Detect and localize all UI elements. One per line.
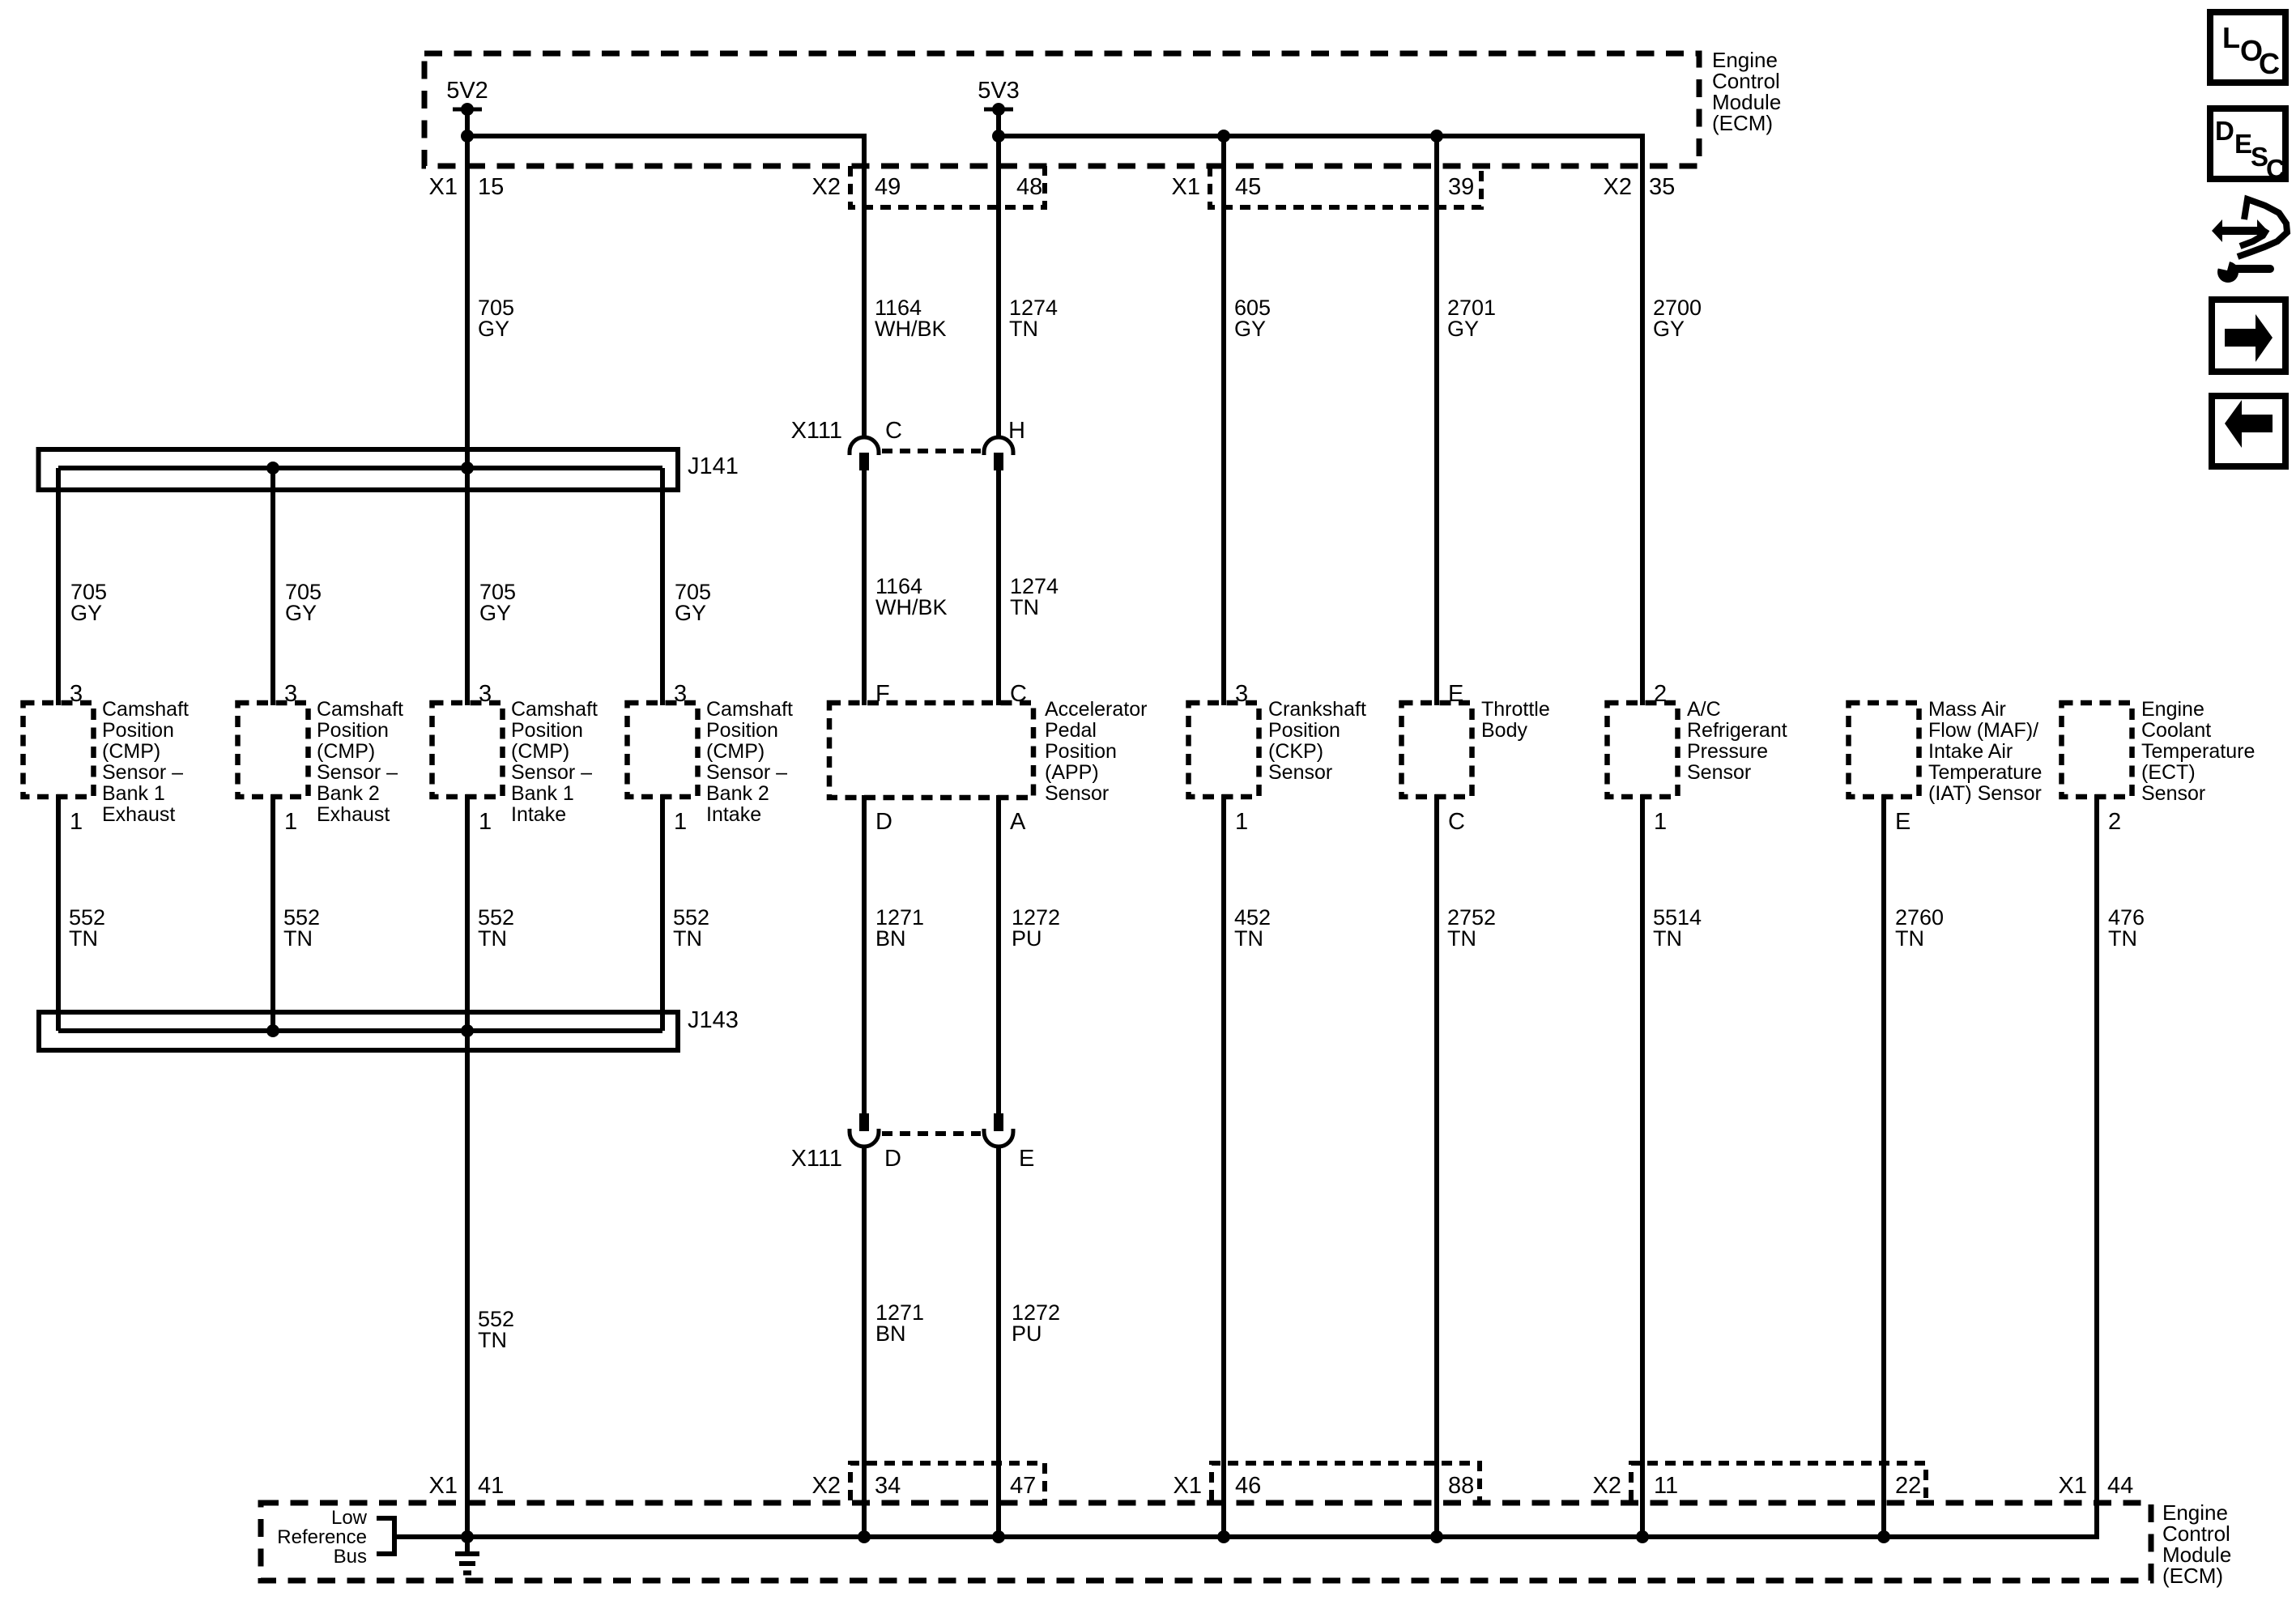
svg-text:1: 1: [674, 809, 687, 835]
svg-text:Temperature: Temperature: [2141, 740, 2255, 763]
svg-text:45: 45: [1235, 174, 1261, 200]
icon vehicle double arrow: [2212, 219, 2268, 242]
svg-text:11: 11: [1654, 1473, 1678, 1499]
icon wrench: [2217, 262, 2238, 283]
svg-text:TN: TN: [1447, 926, 1476, 951]
wire 1274 TN pin 48 down to X111 C: [996, 136, 1001, 436]
svg-text:Crankshaft: Crankshaft: [1268, 698, 1366, 721]
svg-text:Throttle: Throttle: [1481, 698, 1550, 721]
svg-text:Mass Air: Mass Air: [1928, 698, 2006, 721]
connector X2 sub-box pins 11-22: [1631, 1463, 1926, 1500]
wire 705 GY J141 to CMP B1 intake: [465, 468, 470, 705]
throttle body (box): [1402, 703, 1472, 797]
wire 476 TN ECT to ECM 44: [2094, 794, 2099, 1537]
svg-text:(APP): (APP): [1045, 761, 1099, 784]
svg-text:J141: J141: [688, 453, 739, 479]
svg-text:J143: J143: [688, 1007, 739, 1033]
svg-text:34: 34: [875, 1473, 901, 1499]
connector X111 cavity C (male pin): [859, 453, 869, 470]
svg-text:BN: BN: [875, 926, 906, 951]
bracket for Low Reference Bus: [377, 1518, 394, 1554]
svg-text:GY: GY: [675, 601, 706, 625]
svg-text:GY: GY: [1234, 317, 1266, 341]
A/C refrigerant pressure sensor (box): [1608, 703, 1678, 797]
svg-text:2: 2: [2108, 809, 2121, 835]
wire 5V3 rail to pin 35: [999, 136, 1642, 705]
wire 452 TN CKP to ECM 46: [1221, 794, 1226, 1537]
svg-text:Sensor: Sensor: [1045, 782, 1109, 805]
svg-text:GY: GY: [1447, 317, 1479, 341]
svg-text:X111: X111: [791, 1146, 842, 1172]
svg-text:1: 1: [1235, 809, 1248, 835]
svg-text:E: E: [1895, 809, 1910, 835]
svg-text:TN: TN: [1010, 595, 1039, 619]
svg-text:Pressure: Pressure: [1687, 740, 1768, 763]
svg-text:Intake: Intake: [511, 803, 566, 826]
svg-text:Exhaust: Exhaust: [317, 803, 390, 826]
svg-text:GY: GY: [478, 317, 509, 341]
svg-text:(ECM): (ECM): [1712, 111, 1773, 135]
svg-text:TN: TN: [1009, 317, 1038, 341]
svg-text:(CKP): (CKP): [1268, 740, 1323, 763]
svg-text:PU: PU: [1012, 926, 1042, 951]
svg-text:(ECT): (ECT): [2141, 761, 2196, 784]
wire 1164 WH/BK X111 to APP F: [862, 470, 867, 705]
svg-text:GY: GY: [285, 601, 317, 625]
connector X111 cavity H (male pin): [994, 453, 1003, 470]
svg-text:1: 1: [284, 809, 297, 835]
camshaft position sensor bank 1 intake (box): [432, 703, 503, 797]
svg-text:PU: PU: [1012, 1321, 1042, 1346]
svg-text:Sensor –: Sensor –: [317, 761, 398, 784]
junction dot J143 tap 3: [461, 1024, 474, 1037]
svg-text:X111: X111: [791, 418, 842, 444]
svg-text:1: 1: [479, 809, 492, 835]
camshaft position sensor bank 2 intake (box): [628, 703, 698, 797]
svg-text:49: 49: [875, 174, 901, 200]
svg-text:TN: TN: [69, 926, 98, 951]
icon DESC box: [2210, 109, 2285, 179]
engine coolant temperature sensor (box): [2062, 703, 2132, 797]
svg-text:(CMP): (CMP): [317, 740, 375, 763]
ground: [465, 1537, 470, 1551]
wire 5V2 rail to pin 49: [467, 136, 864, 436]
svg-text:Pedal: Pedal: [1045, 719, 1097, 742]
svg-text:C: C: [2259, 47, 2280, 80]
svg-text:Sensor –: Sensor –: [706, 761, 787, 784]
svg-text:Position: Position: [317, 719, 389, 742]
svg-text:GY: GY: [1653, 317, 1685, 341]
wire 705 GY pin 15 down to J141: [465, 136, 470, 468]
svg-text:Camshaft: Camshaft: [706, 698, 793, 721]
svg-text:A/C: A/C: [1687, 698, 1721, 721]
svg-text:5V3: 5V3: [978, 78, 1020, 104]
wire 552 TN J143 to ECM pin 41: [465, 1031, 470, 1537]
wire 5V3 stub: [996, 109, 1001, 136]
ECM (bottom) dashed box: [261, 1503, 2151, 1581]
svg-text:X1: X1: [1172, 174, 1200, 200]
wire 705 GY J141 to CMP B1 exhaust: [56, 468, 61, 705]
svg-text:Sensor: Sensor: [2141, 782, 2205, 805]
svg-text:Engine: Engine: [2141, 698, 2204, 721]
connector X111 link D-E (dashed): [882, 1131, 981, 1136]
svg-text:D: D: [2215, 116, 2234, 146]
icon arrow left box: [2212, 396, 2285, 466]
svg-text:Refrigerant: Refrigerant: [1687, 719, 1787, 742]
junction dot bus pin 46: [1217, 1530, 1230, 1543]
svg-text:Flow (MAF)/: Flow (MAF)/: [1928, 719, 2038, 742]
wire 1271 BN APP D to X111 D: [862, 795, 867, 1113]
svg-text:X1: X1: [429, 174, 458, 200]
junction dot J141 tap 2: [266, 462, 279, 474]
svg-text:Coolant: Coolant: [2141, 719, 2211, 742]
accelerator pedal position sensor (box): [829, 703, 1033, 798]
mass air flow / IAT sensor (box): [1849, 703, 1919, 797]
svg-text:(ECM): (ECM): [2162, 1564, 2223, 1588]
svg-text:GY: GY: [70, 601, 102, 625]
svg-text:X2: X2: [812, 174, 841, 200]
svg-text:41: 41: [478, 1473, 504, 1499]
wire low reference bus rail: [394, 794, 2097, 1537]
svg-text:WH/BK: WH/BK: [875, 595, 948, 619]
svg-text:TN: TN: [1234, 926, 1263, 951]
wire 2760 TN MAF to ECM 22: [1881, 794, 1886, 1537]
wire 1272 PU X111 to ECM 47: [996, 1147, 1001, 1537]
svg-text:GY: GY: [479, 601, 511, 625]
svg-text:Position: Position: [511, 719, 583, 742]
svg-text:Low: Low: [331, 1507, 368, 1529]
wire 5514 TN A/C to ECM 11: [1640, 794, 1645, 1537]
svg-text:Intake Air: Intake Air: [1928, 740, 2013, 763]
svg-text:TN: TN: [1653, 926, 1682, 951]
svg-text:X1: X1: [2059, 1473, 2087, 1499]
svg-text:Sensor –: Sensor –: [511, 761, 592, 784]
wire 552 TN CMP2 to J143: [270, 794, 275, 1031]
junction dot J143 tap 2: [266, 1024, 279, 1037]
svg-text:(CMP): (CMP): [706, 740, 765, 763]
wire 552 TN CMP3 to J143: [465, 794, 470, 1031]
wire 2752 TN TB to ECM 88: [1434, 794, 1439, 1537]
svg-text:Position: Position: [102, 719, 174, 742]
svg-text:46: 46: [1235, 1473, 1261, 1499]
svg-text:1: 1: [70, 809, 83, 835]
junction dot bus pin 47: [992, 1530, 1005, 1543]
junction dot bus pin 34: [858, 1530, 871, 1543]
splice pack J141: [39, 449, 679, 490]
connector X111 cavity E (male pin): [994, 1113, 1003, 1131]
svg-text:Intake: Intake: [706, 803, 761, 826]
svg-text:TN: TN: [2108, 926, 2137, 951]
svg-text:Temperature: Temperature: [1928, 761, 2042, 784]
connector X111 cavity D (female half): [850, 1129, 879, 1147]
svg-text:(CMP): (CMP): [511, 740, 569, 763]
wire 705 GY J141 to CMP B2 intake: [660, 468, 665, 705]
connector X1 sub-box pins 46-88: [1212, 1463, 1480, 1500]
wire 552 TN CMP1 to J143: [56, 794, 61, 1031]
svg-text:BN: BN: [875, 1321, 906, 1346]
junction dot bus pin 11: [1636, 1530, 1649, 1543]
splice pack J143: [39, 1012, 678, 1050]
svg-text:Sensor –: Sensor –: [102, 761, 183, 784]
wire 1274 TN X111 to APP C: [996, 470, 1001, 705]
svg-text:Bank 2: Bank 2: [706, 782, 769, 805]
svg-text:C: C: [885, 418, 902, 444]
svg-text:WH/BK: WH/BK: [875, 317, 947, 341]
svg-text:1: 1: [1654, 809, 1667, 835]
connector X1 sub-box pins 45-39: [1210, 166, 1481, 207]
icon vehicle outline: [2238, 199, 2287, 257]
svg-text:22: 22: [1895, 1473, 1921, 1499]
svg-text:Bus: Bus: [334, 1546, 367, 1568]
svg-text:TN: TN: [478, 926, 507, 951]
svg-text:Position: Position: [1045, 740, 1117, 763]
svg-text:TN: TN: [478, 1328, 507, 1352]
svg-text:Camshaft: Camshaft: [317, 698, 403, 721]
connector X111 cavity D (male pin): [859, 1113, 869, 1131]
svg-text:88: 88: [1448, 1473, 1474, 1499]
connector X111 link C-H (dashed): [882, 449, 981, 453]
svg-text:C: C: [2266, 154, 2285, 184]
icon arrow right box: [2212, 300, 2285, 372]
connector X2 sub-box pins 34-47: [850, 1463, 1045, 1500]
svg-text:L: L: [2222, 21, 2240, 54]
svg-text:5V2: 5V2: [446, 78, 488, 104]
svg-text:Position: Position: [1268, 719, 1340, 742]
svg-text:Camshaft: Camshaft: [102, 698, 189, 721]
svg-text:Exhaust: Exhaust: [102, 803, 175, 826]
svg-text:Position: Position: [706, 719, 778, 742]
connector X111 cavity E (female half): [984, 1129, 1013, 1147]
svg-text:C: C: [1448, 809, 1465, 835]
connector X111 cavity C (female half): [850, 437, 879, 455]
svg-text:Bank 1: Bank 1: [511, 782, 574, 805]
svg-text:D: D: [884, 1146, 901, 1172]
svg-text:(CMP): (CMP): [102, 740, 160, 763]
svg-text:H: H: [1008, 418, 1025, 444]
wire 705 GY J141 to CMP B2 exhaust: [270, 468, 275, 705]
svg-text:TN: TN: [1895, 926, 1924, 951]
svg-text:44: 44: [2107, 1473, 2133, 1499]
svg-text:TN: TN: [283, 926, 313, 951]
svg-text:X2: X2: [812, 1473, 841, 1499]
icon LOC box: [2210, 12, 2285, 83]
svg-text:Sensor: Sensor: [1268, 761, 1332, 784]
svg-text:35: 35: [1649, 174, 1675, 200]
junction dot J141 tap 3: [461, 462, 474, 474]
svg-text:A: A: [1010, 809, 1026, 835]
svg-text:47: 47: [1010, 1473, 1036, 1499]
svg-text:Body: Body: [1481, 719, 1527, 742]
svg-text:E: E: [1019, 1146, 1034, 1172]
camshaft position sensor bank 2 exhaust (box): [238, 703, 309, 797]
svg-text:E: E: [2234, 129, 2252, 159]
wire 1272 PU APP A to X111 E: [996, 795, 1001, 1113]
wire 605 GY pin 45 down to CKP: [1221, 136, 1226, 705]
svg-text:Bank 1: Bank 1: [102, 782, 165, 805]
junction dots on rails: [461, 130, 474, 143]
junction dot bus pin 22: [1877, 1530, 1890, 1543]
svg-text:D: D: [875, 809, 892, 835]
wire 2701 GY pin 39 down to Throttle Body: [1434, 136, 1439, 705]
wire 552 TN CMP4 to J143: [660, 794, 665, 1031]
svg-text:39: 39: [1448, 174, 1474, 200]
svg-text:X2: X2: [1604, 174, 1632, 200]
ECM (top) dashed box: [424, 53, 1699, 166]
svg-text:48: 48: [1016, 174, 1042, 200]
camshaft position sensor bank 1 exhaust (box): [23, 703, 94, 797]
svg-text:X2: X2: [1593, 1473, 1621, 1499]
wire 1271 BN X111 to ECM 34: [862, 1147, 867, 1537]
crankshaft position sensor (box): [1189, 703, 1259, 797]
junction dot bus pin 41: [461, 1530, 474, 1543]
svg-text:X1: X1: [1174, 1473, 1202, 1499]
wire 5V2 stub: [465, 109, 470, 136]
svg-text:Camshaft: Camshaft: [511, 698, 598, 721]
junction dot bus pin 88: [1430, 1530, 1443, 1543]
svg-text:X1: X1: [429, 1473, 458, 1499]
svg-text:(IAT) Sensor: (IAT) Sensor: [1928, 782, 2042, 805]
svg-text:TN: TN: [673, 926, 702, 951]
connector X2 sub-box pins 49-48: [850, 166, 1045, 207]
svg-text:Reference: Reference: [277, 1526, 367, 1548]
svg-text:Bank 2: Bank 2: [317, 782, 380, 805]
connector X111 cavity H (female half): [984, 437, 1013, 455]
svg-text:Accelerator: Accelerator: [1045, 698, 1147, 721]
svg-text:Sensor: Sensor: [1687, 761, 1751, 784]
svg-text:15: 15: [478, 174, 504, 200]
